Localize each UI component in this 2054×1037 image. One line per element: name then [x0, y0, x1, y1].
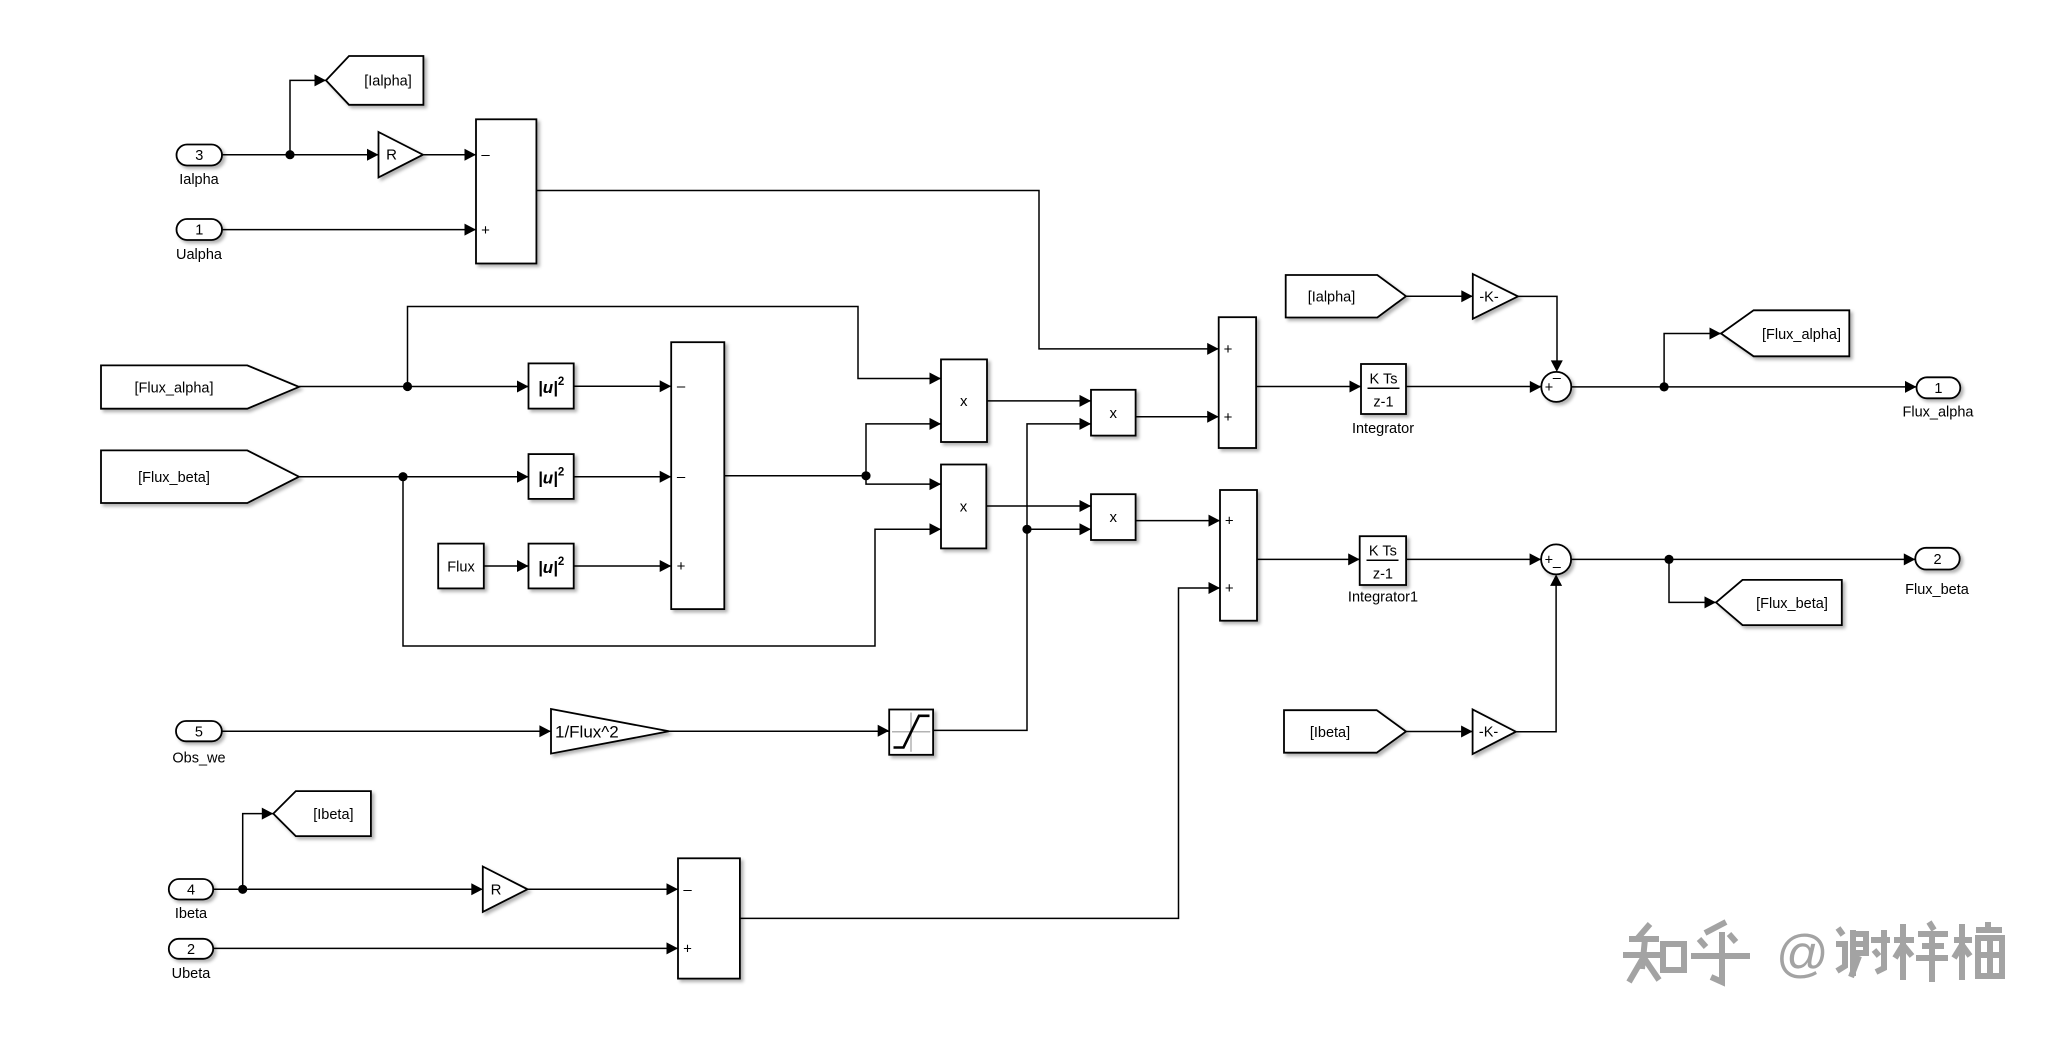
- inport 5: [176, 721, 222, 741]
- svg-text:–: –: [481, 147, 490, 164]
- junction Ibeta: [238, 885, 247, 894]
- wire u2 block2 to big sum: [574, 471, 672, 483]
- gain K1: [1473, 274, 1518, 319]
- wire Flux const to u2 block3: [484, 560, 529, 572]
- svg-text:Ualpha: Ualpha: [176, 247, 223, 263]
- wire branch Flux_beta to product2 input2: [403, 477, 941, 646]
- watermark zhihu logo text: [1623, 922, 1750, 982]
- wire branch Ialpha to goto: [290, 74, 326, 154]
- wire sum1 to sum upper right: [536, 191, 1218, 355]
- from Flux_beta: [101, 450, 299, 503]
- wire integrator1 to circle sum2: [1406, 553, 1541, 565]
- abs-square block 1: [529, 363, 574, 408]
- sum upper right: [1219, 317, 1256, 448]
- svg-text:R: R: [386, 147, 397, 164]
- goto Flux_beta: [1716, 580, 1842, 625]
- wire product3 to sum upper right: [1136, 411, 1219, 423]
- svg-text:1: 1: [1934, 381, 1942, 397]
- big sum block: [671, 342, 724, 609]
- svg-text:Ialpha: Ialpha: [179, 172, 219, 188]
- goto Ibeta: [273, 791, 371, 836]
- from Ialpha: [1286, 275, 1406, 318]
- from Ibeta: [1284, 710, 1406, 753]
- wire Ualpha to sum1 plus: [222, 224, 476, 236]
- svg-text:–: –: [1553, 560, 1562, 576]
- svg-text:+: +: [1545, 553, 1553, 569]
- wire sum upper right to integrator: [1256, 381, 1361, 393]
- outport 2: [1915, 548, 1959, 570]
- svg-text:–: –: [683, 881, 692, 898]
- wire gain R2 to sum2 minus: [528, 883, 679, 895]
- svg-text:-K-: -K-: [1479, 289, 1499, 305]
- svg-text:3: 3: [195, 148, 203, 164]
- wire branch to product4 input2: [1027, 523, 1091, 535]
- goto Flux_alpha: [1721, 310, 1849, 356]
- svg-text:–: –: [677, 469, 686, 486]
- wire saturation to product3 input2: [933, 418, 1091, 731]
- svg-text:–: –: [677, 378, 686, 395]
- sum lower right: [1220, 490, 1257, 621]
- wire branch to goto Flux_beta: [1669, 559, 1716, 608]
- wire sum lower right to integrator1: [1257, 553, 1360, 565]
- wire Obs_we to gain flux: [222, 725, 551, 737]
- outport 1: [1917, 377, 1961, 398]
- svg-text:+: +: [1225, 580, 1234, 597]
- svg-text:Flux_alpha: Flux_alpha: [1903, 405, 1975, 421]
- svg-text:x: x: [960, 499, 968, 516]
- svg-text:[Flux_alpha]: [Flux_alpha]: [1762, 327, 1841, 343]
- wire gain K2 to circle sum2 bottom: [1516, 574, 1562, 731]
- svg-text:–: –: [1553, 370, 1562, 386]
- wire gain flux to saturation: [669, 725, 890, 737]
- wire from Ibeta tag to gain K2: [1406, 726, 1473, 738]
- integrator1: [1360, 536, 1406, 585]
- abs-square block 3: [529, 544, 574, 589]
- svg-text:[Ialpha]: [Ialpha]: [1308, 290, 1356, 306]
- svg-text:R: R: [491, 881, 502, 898]
- wire gain K1 to circle sum1 top: [1518, 296, 1563, 372]
- wire Ubeta to sum2 plus: [213, 942, 678, 954]
- svg-text:2: 2: [187, 942, 195, 958]
- wire Ialpha to gain R: [222, 149, 379, 161]
- junction outport1 line: [1660, 382, 1669, 391]
- gain R1: [379, 132, 424, 177]
- wire circle sum1 to outport1: [1571, 381, 1916, 393]
- wire product1 to product3: [987, 395, 1091, 407]
- wire branch to product1 input2: [866, 418, 941, 476]
- goto Ialpha: [326, 56, 423, 105]
- svg-text:Integrator: Integrator: [1352, 421, 1414, 437]
- wire u2 block3 to big sum: [574, 560, 672, 572]
- svg-text:+: +: [1224, 341, 1233, 358]
- junction big sum output: [861, 471, 870, 480]
- svg-text:5: 5: [195, 725, 203, 741]
- svg-text:4: 4: [187, 883, 195, 899]
- constant Flux: [438, 544, 484, 589]
- integrator: [1361, 364, 1406, 414]
- wire branch Ibeta to goto: [243, 808, 274, 890]
- svg-text:Ibeta: Ibeta: [175, 906, 208, 922]
- junction saturation line: [1022, 525, 1031, 534]
- gain K2: [1473, 709, 1516, 754]
- svg-text:Flux: Flux: [447, 560, 475, 576]
- svg-text:z-1: z-1: [1373, 567, 1393, 583]
- wire gain R to sum1 minus: [423, 149, 476, 161]
- wire Ibeta to gain R2: [213, 883, 483, 895]
- wire circle sum2 to outport2: [1571, 553, 1915, 565]
- circle sum 1: [1541, 370, 1571, 402]
- wire from Flux_beta tag to u2 block2: [299, 471, 529, 483]
- svg-text:+: +: [481, 222, 490, 239]
- wire from Flux_alpha tag to u2 block1: [299, 381, 529, 393]
- wire integrator to circle sum1: [1406, 381, 1541, 393]
- svg-text:[Ialpha]: [Ialpha]: [364, 73, 412, 89]
- wire sum2 to sum lower right input2: [740, 582, 1220, 918]
- svg-text:1/Flux^2: 1/Flux^2: [555, 723, 619, 742]
- svg-text:2: 2: [1933, 552, 1941, 568]
- product1: [941, 359, 987, 442]
- svg-text:Obs_we: Obs_we: [172, 751, 225, 767]
- watermark name characters: [1836, 922, 2002, 982]
- svg-text:[Ibeta]: [Ibeta]: [313, 807, 353, 823]
- svg-text:+: +: [1224, 409, 1233, 426]
- svg-text:+: +: [1225, 513, 1234, 530]
- junction outport2 line: [1664, 555, 1673, 564]
- svg-text:[Ibeta]: [Ibeta]: [1310, 725, 1350, 741]
- sum block 1: [476, 119, 536, 263]
- junction Flux_alpha: [403, 382, 412, 391]
- wire product4 to sum lower right: [1136, 515, 1220, 527]
- wire branch to goto Flux_alpha: [1664, 328, 1721, 387]
- svg-text:K Ts: K Ts: [1370, 372, 1398, 388]
- svg-text:-K-: -K-: [1479, 725, 1499, 741]
- inport 3: [177, 145, 223, 166]
- wire from Ialpha tag to gain K1: [1406, 290, 1473, 302]
- svg-text:x: x: [960, 393, 968, 410]
- inport 4: [169, 879, 213, 900]
- svg-text:x: x: [1109, 405, 1117, 422]
- wire product2 to product4: [986, 500, 1091, 512]
- product3: [1091, 390, 1136, 436]
- svg-text:x: x: [1109, 509, 1117, 526]
- svg-text:[Flux_beta]: [Flux_beta]: [138, 470, 210, 486]
- product4: [1091, 494, 1136, 540]
- wire u2 block1 to big sum: [574, 380, 672, 392]
- svg-text:Integrator1: Integrator1: [1348, 590, 1418, 606]
- saturation block: [889, 710, 933, 755]
- sum block 2: [678, 858, 740, 978]
- product2: [941, 465, 986, 549]
- svg-text:Flux_beta: Flux_beta: [1905, 582, 1970, 598]
- junction Ialpha: [285, 150, 294, 159]
- svg-text:+: +: [677, 558, 686, 575]
- svg-text:[Flux_beta]: [Flux_beta]: [1756, 596, 1828, 612]
- circle sum 2: [1541, 544, 1571, 575]
- svg-text:K Ts: K Ts: [1369, 544, 1397, 560]
- svg-text:1: 1: [195, 223, 203, 239]
- svg-text:Ubeta: Ubeta: [172, 966, 212, 982]
- abs-square block 2: [529, 454, 574, 499]
- gain R2: [483, 867, 528, 912]
- wire branch Flux_alpha to product1 input1: [408, 307, 942, 387]
- junction Flux_beta: [398, 472, 407, 481]
- wire branch to product2 input1: [866, 476, 941, 490]
- inport 1: [177, 219, 223, 240]
- svg-text:[Flux_alpha]: [Flux_alpha]: [135, 380, 214, 396]
- svg-text:@: @: [1776, 925, 1829, 983]
- svg-text:z-1: z-1: [1373, 395, 1393, 411]
- svg-text:+: +: [683, 941, 692, 958]
- inport 2: [169, 939, 213, 959]
- from Flux_alpha: [101, 365, 299, 408]
- gain 1/Flux^2: [551, 709, 669, 754]
- wire big sum output: [724, 475, 866, 477]
